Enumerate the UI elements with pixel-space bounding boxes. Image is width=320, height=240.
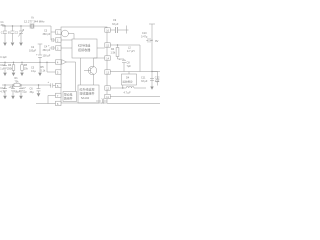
svg-text:0.1µ: 0.1µ bbox=[31, 70, 36, 73]
capacitor C6 bbox=[37, 84, 41, 93]
box D4 bbox=[122, 74, 137, 85]
capacitor into pin6 bbox=[50, 83, 56, 87]
svg-text:0.1µF: 0.1µF bbox=[0, 56, 7, 59]
capacitor C8 bbox=[122, 60, 126, 71]
svg-text:1µF: 1µF bbox=[155, 80, 160, 83]
svg-text:250k: 250k bbox=[7, 68, 13, 71]
capacitor C12 bbox=[152, 72, 159, 86]
wire triangle out bbox=[67, 62, 76, 91]
crystal X1 bbox=[30, 24, 34, 29]
pin 3 bbox=[56, 46, 62, 50]
pin 11 bbox=[105, 56, 111, 60]
capacitor C1 bbox=[3, 25, 7, 42]
svg-text:+C5: +C5 bbox=[9, 86, 14, 89]
wire bus y103.3 bbox=[107, 102, 160, 104]
pin 7 bbox=[56, 93, 62, 97]
trimmer capacitor CT bbox=[18, 25, 23, 42]
rail lower-left bbox=[2, 84, 50, 86]
svg-text:9V: 9V bbox=[155, 39, 159, 43]
transistor Q1 bbox=[84, 58, 105, 85]
svg-text:22µ: 22µ bbox=[23, 91, 28, 94]
ground bbox=[37, 93, 41, 97]
ground bbox=[19, 96, 23, 100]
capacitor C5 bbox=[11, 84, 15, 95]
wire right r4 l2 bbox=[110, 45, 140, 72]
svg-text:接收器组件: 接收器组件 bbox=[80, 91, 95, 96]
pin 6 bbox=[56, 83, 62, 87]
wire box1 down bbox=[80, 58, 82, 85]
pin 8 bbox=[56, 101, 62, 105]
pin 14 bbox=[105, 94, 111, 98]
svg-text:红外线遥: 红外线遥 bbox=[78, 43, 90, 48]
capacitor C3 bbox=[51, 38, 56, 42]
pin 12 bbox=[105, 70, 111, 74]
capacitor C14 bbox=[3, 84, 7, 95]
capacitor C9 bbox=[116, 27, 118, 33]
cap bottom center bbox=[96, 98, 107, 103]
wire pin3 to box bbox=[61, 47, 72, 49]
capacitor C6 bbox=[19, 84, 23, 95]
capacitor C11 bbox=[150, 78, 154, 80]
IC U1 outline bbox=[61, 27, 107, 103]
wire pin7 pin8 bbox=[36, 96, 56, 104]
pin 5 bbox=[56, 70, 62, 74]
svg-text:100µF: 100µF bbox=[29, 50, 37, 53]
svg-text:4.7µ: 4.7µ bbox=[0, 91, 5, 94]
supply rail vertical bbox=[149, 24, 155, 87]
pin 13 bbox=[105, 86, 111, 90]
ground bbox=[11, 43, 15, 47]
resistor R4 bbox=[116, 44, 124, 60]
svg-text:控接收器: 控接收器 bbox=[78, 47, 90, 52]
svg-text:33µ: 33µ bbox=[30, 91, 35, 94]
wire d4 left down bbox=[122, 85, 124, 88]
capacitor C2a bbox=[11, 25, 15, 42]
svg-text:5.1k: 5.1k bbox=[41, 70, 46, 73]
labels bbox=[0, 16, 160, 107]
resistor R8 bbox=[21, 62, 24, 73]
oscillator circle bbox=[62, 30, 69, 37]
wire bus y71 bbox=[110, 71, 160, 73]
ground bbox=[12, 73, 16, 77]
svg-text:30p: 30p bbox=[1, 24, 6, 27]
wire bus y88 bbox=[110, 87, 146, 89]
wire pin2 to box bbox=[61, 39, 72, 41]
ground bbox=[38, 73, 42, 77]
svg-text:1 µ: 1 µ bbox=[0, 68, 4, 71]
svg-text:5A104: 5A104 bbox=[81, 96, 90, 100]
svg-text:360 pF: 360 pF bbox=[43, 49, 51, 52]
svg-text:100 µF: 100 µF bbox=[43, 55, 51, 58]
svg-text:33 µF: 33 µF bbox=[141, 80, 148, 83]
wire top right supply bbox=[110, 26, 128, 34]
svg-text:路组件: 路组件 bbox=[64, 97, 73, 101]
svg-text:接收模块: 接收模块 bbox=[123, 80, 134, 84]
pin 2 bbox=[56, 38, 62, 42]
pin 10 bbox=[105, 43, 111, 47]
ground bbox=[11, 96, 15, 100]
capacitor C10 bbox=[146, 38, 152, 43]
wire rail to pin5 bbox=[47, 62, 56, 72]
inductor L3 bbox=[126, 86, 134, 88]
svg-text:7µF: 7µF bbox=[127, 65, 132, 68]
inner box signal bbox=[72, 39, 97, 58]
ground bbox=[3, 96, 7, 100]
wire bus y96.7 bbox=[110, 96, 160, 98]
svg-text:0.47µ: 0.47µ bbox=[141, 36, 148, 39]
svg-text:4.7 µH: 4.7 µH bbox=[127, 50, 135, 53]
ground bbox=[19, 43, 23, 47]
capacitor C16 bbox=[3, 62, 7, 73]
svg-text:68µF: 68µF bbox=[15, 91, 21, 94]
ground bbox=[3, 43, 7, 47]
svg-text:33 µF: 33 µF bbox=[112, 23, 119, 26]
amp triangle bbox=[62, 60, 67, 65]
inner box receiver bbox=[78, 85, 99, 103]
resistor R1 bbox=[14, 84, 20, 87]
pin 4 bbox=[56, 60, 62, 64]
capacitor C4 bbox=[50, 46, 56, 50]
pin 1 bbox=[56, 30, 62, 34]
svg-text:4.7 µF: 4.7 µF bbox=[124, 92, 132, 95]
wire top-left rail bbox=[2, 26, 56, 40]
resistor R6 bbox=[12, 62, 15, 73]
capacitor C2 elec bbox=[38, 44, 43, 72]
pin 9 right top bbox=[105, 28, 111, 32]
ground bbox=[20, 73, 24, 77]
svg-text:360 pF: 360 pF bbox=[43, 33, 51, 36]
wire osc to box bbox=[68, 34, 74, 40]
svg-text:12.277 344 MHz: 12.277 344 MHz bbox=[24, 20, 45, 24]
rail mid-left bbox=[0, 61, 56, 63]
wire box to right pin bbox=[97, 47, 105, 49]
svg-text:1.5k: 1.5k bbox=[111, 52, 116, 55]
wire d4 top bbox=[128, 72, 130, 75]
ground bbox=[3, 73, 7, 77]
inner box driver bbox=[63, 92, 77, 102]
